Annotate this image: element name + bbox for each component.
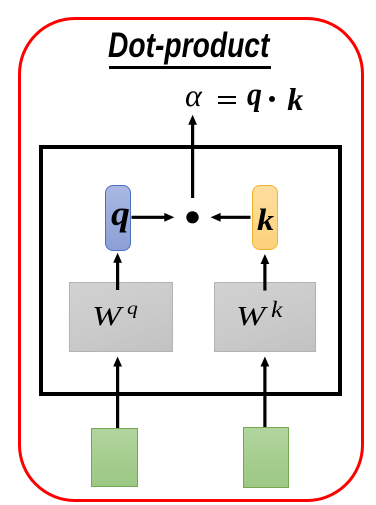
arrow: W^k to k [261, 254, 270, 291]
outer black box [39, 145, 343, 396]
label k [257, 202, 274, 238]
label W^k [0, 0, 1, 1]
arrow: k to dot [211, 213, 251, 222]
arrow: right input to W^k [261, 357, 270, 428]
arrow: W^q to q [113, 253, 122, 290]
left input box (green) [91, 428, 138, 487]
arrow: dot-product node up to alpha [188, 115, 197, 198]
dot-product node (black dot) [186, 211, 198, 223]
label q [111, 194, 130, 234]
title underline [109, 66, 271, 69]
arrow: q to dot [132, 213, 175, 222]
label W^q [0, 0, 1, 1]
title: Dot-product [108, 26, 269, 66]
arrow: left input to W^q [113, 357, 122, 429]
right input box (green) [243, 427, 289, 488]
W^q box (gray) [69, 282, 174, 352]
q vector box (blue) [105, 185, 131, 251]
formula: alpha = q dot k [185, 77, 202, 114]
k vector box (orange) [252, 185, 278, 250]
W^k box (gray) [214, 282, 316, 353]
